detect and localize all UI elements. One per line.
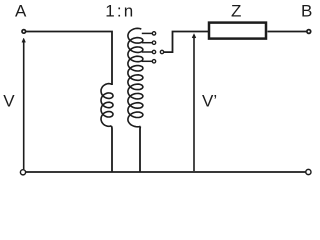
impedance Z box [209, 23, 266, 39]
wire secondary bottom [139, 126, 142, 172]
secondary winding coil [128, 28, 143, 127]
primary winding coil [101, 84, 113, 127]
terminal A [22, 30, 26, 34]
voltage arrow V [22, 38, 26, 169]
terminal bottom-right [306, 169, 311, 174]
svg-text:B: B [301, 2, 312, 21]
bottom wire [26, 171, 306, 173]
svg-text:1:n: 1:n [105, 2, 135, 21]
tap 1 contact [152, 32, 155, 35]
tap 3 contact [152, 50, 155, 53]
wire primary bottom [110, 126, 113, 172]
tap 3 lead [142, 51, 153, 53]
wire Z to B [268, 31, 307, 33]
tap 4 contact [152, 60, 155, 63]
wiper contact [160, 50, 163, 53]
terminal B [307, 30, 311, 34]
wire wiper to Z [164, 32, 208, 53]
svg-text:Z: Z [231, 2, 241, 21]
terminal bottom-left [20, 170, 25, 175]
tap 1 lead [142, 32, 153, 34]
svg-text:V: V [3, 91, 15, 110]
voltage arrow V' [192, 34, 196, 171]
svg-text:V’: V’ [202, 91, 217, 110]
tap 4 lead [142, 60, 153, 62]
wire A to primary top [26, 32, 112, 86]
svg-text:A: A [15, 2, 27, 21]
tap 2 lead [142, 42, 153, 44]
tap 2 contact [152, 41, 155, 44]
